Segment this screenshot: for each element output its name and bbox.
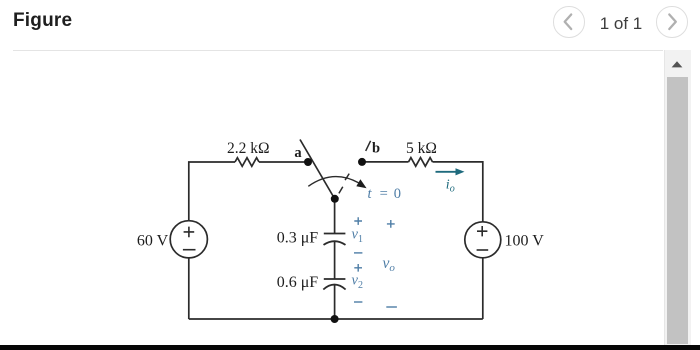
scrollbar thumb: [667, 77, 688, 344]
svg-text:v1: v1: [352, 227, 363, 245]
wire: middle branch between C1 and C2: [334, 241, 336, 279]
svg-text:0.3 μF: 0.3 μF: [277, 230, 319, 247]
voltage source V1 60 V circle: [170, 221, 207, 258]
svg-text:5 kΩ: 5 kΩ: [406, 140, 437, 157]
C1 polarity minus: [354, 252, 362, 254]
svg-text:a: a: [294, 145, 302, 161]
resistor R1 (2.2 kOhm) zigzag: [235, 158, 259, 167]
capacitor C1 0.3 uF plates: [324, 234, 346, 245]
V2 plus sign: [477, 226, 487, 236]
V1 minus sign: [183, 249, 196, 251]
V1 plus sign: [184, 227, 195, 238]
svg-text:60 V: 60 V: [137, 232, 169, 249]
svg-text:io: io: [446, 177, 455, 194]
svg-text:100 V: 100 V: [505, 232, 545, 249]
wire: bottom rail: [189, 318, 483, 320]
V2 minus sign: [477, 249, 489, 251]
wire: right rail lower: [482, 258, 484, 319]
pagination label "1 of 1": [594, 14, 648, 34]
current arrow i_o: [436, 168, 465, 175]
switch phantom blade dashes toward b: [339, 141, 371, 194]
voltage source V2 100 V circle: [465, 222, 501, 258]
vo polarity plus: [387, 220, 395, 228]
wire: left rail top + top wire to node a: [189, 162, 308, 221]
svg-text:2.2 kΩ: 2.2 kΩ: [227, 140, 270, 157]
switch pivot junction: [331, 195, 339, 203]
switch motion arc with arrowhead: [308, 177, 366, 189]
wire: middle branch lower (C2 to bottom rail): [334, 285, 336, 319]
pagination next button: [656, 6, 688, 38]
C1 polarity plus: [354, 217, 362, 225]
wire: middle branch upper (switch pivot to C1): [334, 200, 336, 234]
bottom junction node: [331, 315, 339, 323]
svg-text:v2: v2: [352, 273, 363, 291]
node a: [304, 158, 312, 166]
C2 polarity minus: [354, 301, 362, 303]
svg-text:t=0: t=0: [368, 186, 402, 202]
svg-text:b: b: [372, 140, 380, 156]
capacitor C2 0.6 uF plates: [323, 279, 345, 290]
wire: left rail lower: [188, 258, 190, 319]
bottom black bar: [0, 345, 700, 350]
node b: [358, 158, 366, 166]
header title "Figure": [13, 10, 72, 32]
scrollbar up arrow: [664, 50, 690, 76]
wire: node b to top-right corner and right rail upper: [362, 162, 483, 222]
header divider: [13, 50, 663, 51]
resistor R2 (5 kOhm) zigzag: [409, 158, 433, 167]
svg-text:0.6 μF: 0.6 μF: [277, 274, 319, 291]
pagination prev button: [553, 6, 585, 38]
C2 polarity plus: [354, 264, 362, 272]
scrollbar track: [664, 50, 691, 345]
vo polarity minus: [386, 306, 397, 308]
svg-text:vo: vo: [383, 255, 396, 274]
switch blade from contact a to pivot: [300, 140, 335, 200]
